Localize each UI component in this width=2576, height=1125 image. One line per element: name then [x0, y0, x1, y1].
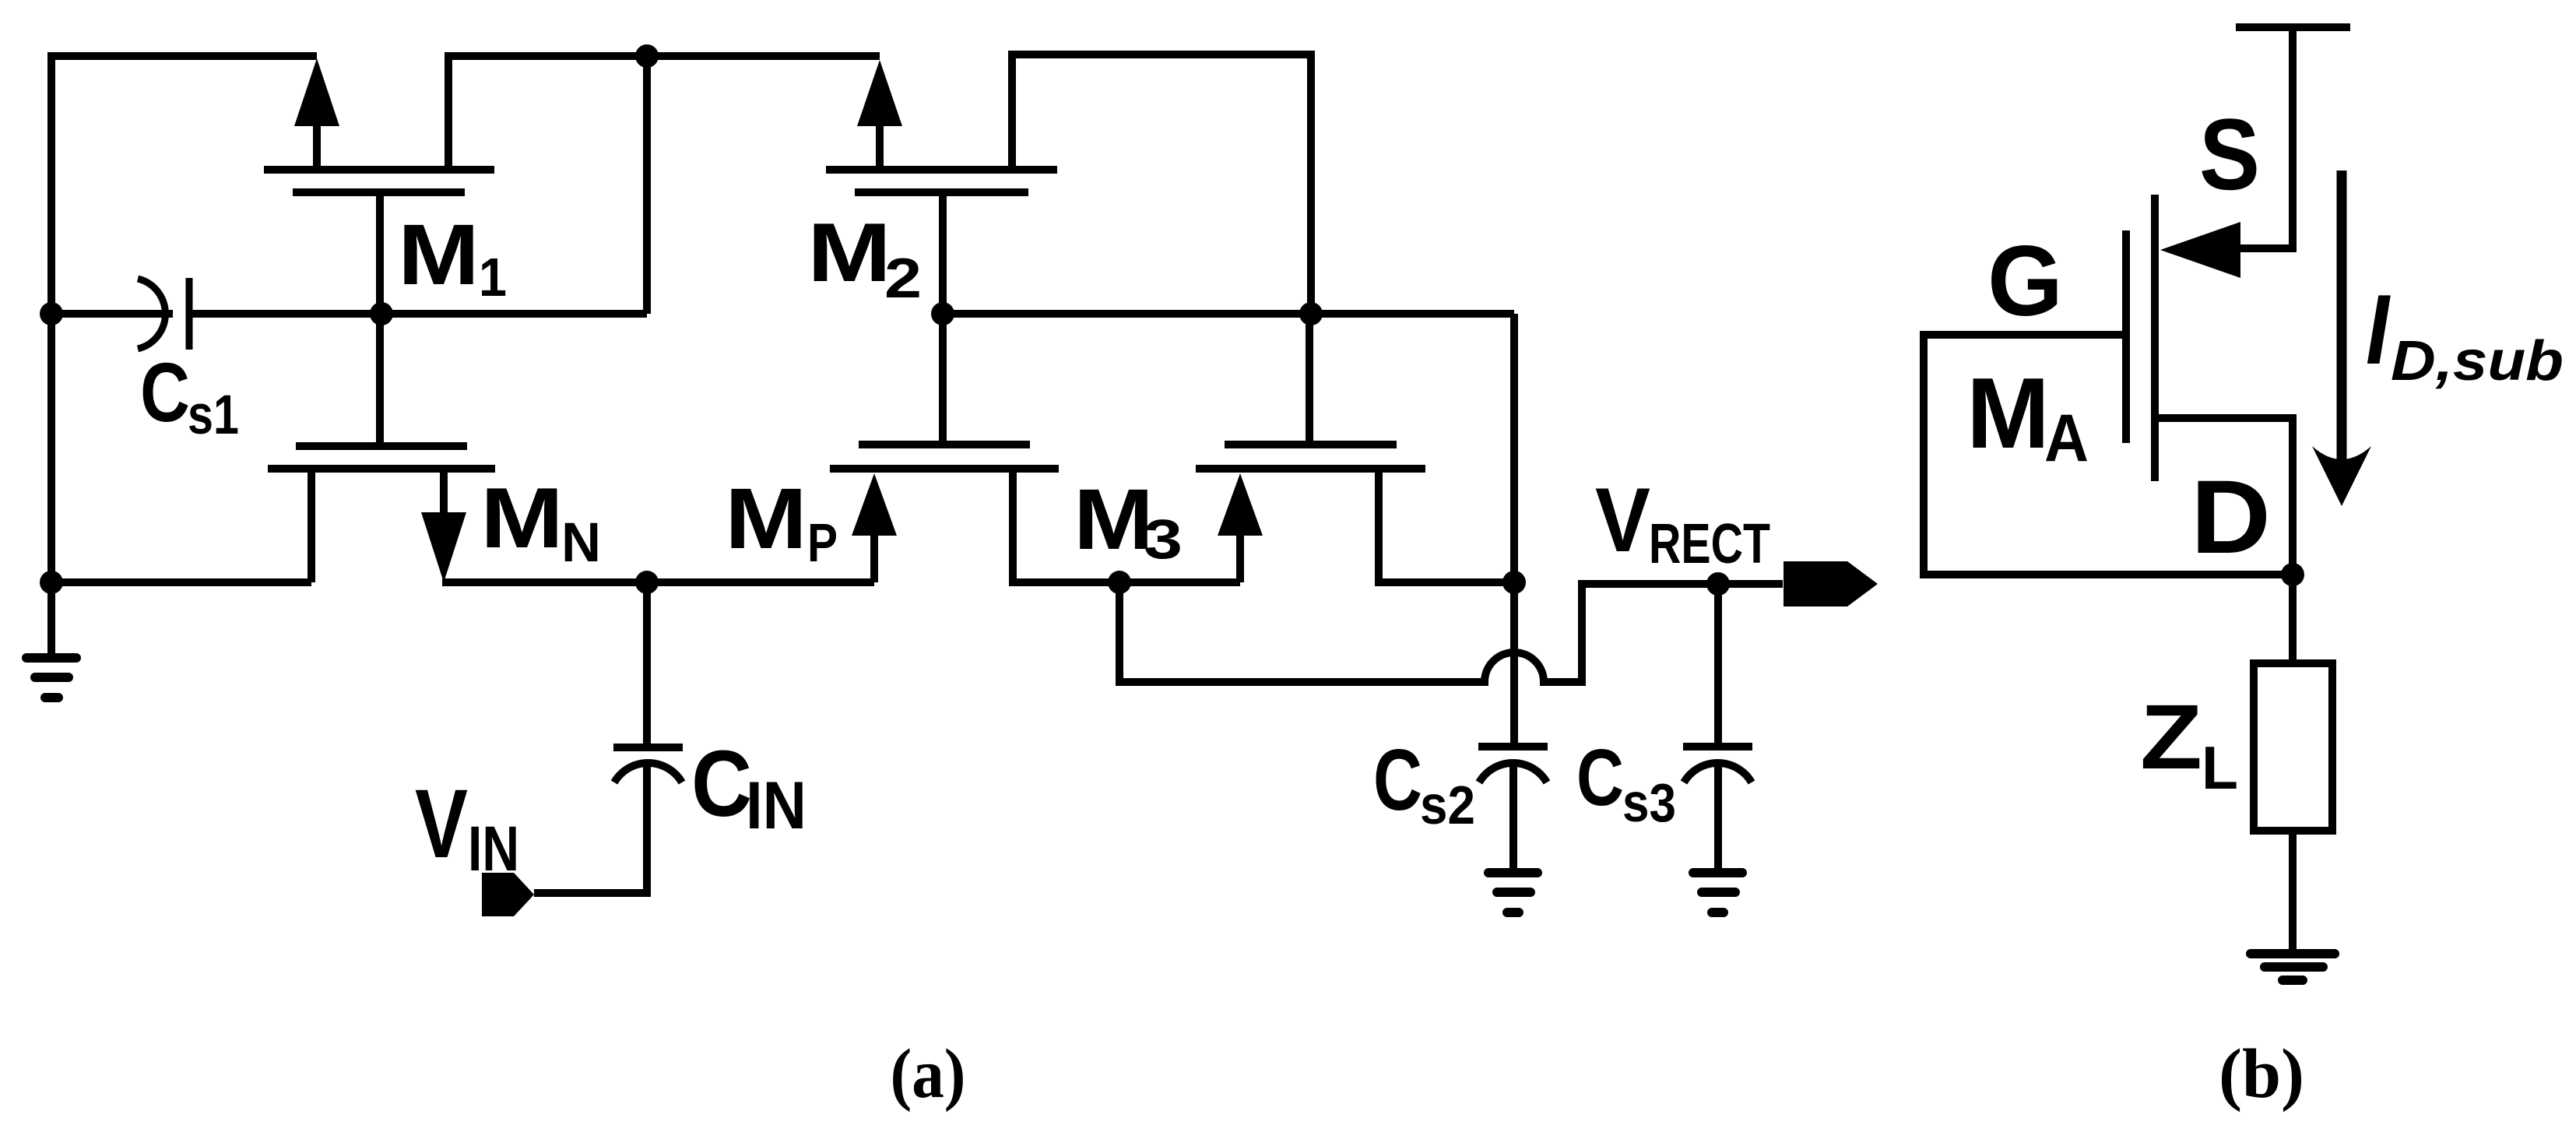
- ground: [26, 658, 76, 698]
- wire CIN stem: [643, 582, 651, 747]
- svg-text:2: 2: [884, 248, 922, 310]
- wire Cs2 vertical: [1510, 314, 1518, 747]
- svg-text:A: A: [2044, 401, 2089, 476]
- svg-text:V: V: [1595, 469, 1650, 571]
- svg-text:L: L: [2202, 733, 2238, 802]
- capacitor Cs1: [138, 278, 189, 350]
- wire ZL to ground: [2289, 831, 2297, 951]
- svg-text:C: C: [1576, 733, 1624, 822]
- wire hop to VRECT: [1119, 582, 1783, 682]
- transistor M1: [264, 56, 647, 192]
- svg-text:M: M: [1074, 472, 1154, 568]
- svg-text:N: N: [561, 512, 601, 574]
- svg-text:V: V: [415, 770, 468, 878]
- svg-text:M: M: [1966, 357, 2050, 469]
- svg-text:D,sub: D,sub: [2391, 330, 2564, 392]
- node A dot left: [40, 302, 63, 325]
- node dot rail left: [40, 571, 63, 594]
- svg-text:IN: IN: [746, 768, 807, 843]
- svg-text:M: M: [480, 470, 564, 566]
- svg-text:1: 1: [479, 247, 507, 308]
- svg-text:M: M: [807, 206, 891, 299]
- svg-text:C: C: [1373, 732, 1422, 828]
- wire gate stem M2/MP: [939, 192, 947, 445]
- svg-text:(a): (a): [891, 1035, 966, 1113]
- svg-text:M: M: [725, 471, 807, 567]
- node dot output rail: [1108, 571, 1131, 594]
- svg-text:(b): (b): [2219, 1035, 2304, 1113]
- wire Cs3 stem: [1714, 584, 1722, 747]
- wire M1-M2 top link: [647, 52, 880, 60]
- svg-text:Z: Z: [2140, 686, 2202, 789]
- wire left vertical: [47, 52, 55, 658]
- wire gate stem M1/MN: [376, 192, 384, 446]
- node dot top: [635, 44, 659, 68]
- wire node row 1 right: [189, 310, 647, 318]
- ground: [1488, 873, 1538, 912]
- node dot M3 gate: [1299, 302, 1323, 325]
- node dot rail CIN: [635, 571, 659, 594]
- resistor ZL: [2254, 663, 2332, 831]
- wire rail left: [51, 578, 311, 586]
- wire vertical to node row: [643, 56, 651, 314]
- svg-text:IN: IN: [468, 814, 519, 884]
- wire top-left rail: [51, 52, 317, 60]
- terminal VIN: [482, 873, 534, 916]
- svg-text:I: I: [2366, 274, 2391, 385]
- ground: [1693, 873, 1742, 912]
- node dot M1 gate: [370, 302, 393, 325]
- current arrow ID,sub: [2312, 171, 2371, 506]
- node dot Cs2: [1502, 571, 1526, 594]
- node D dot: [2281, 563, 2304, 586]
- svg-text:M: M: [398, 207, 480, 303]
- svg-text:P: P: [807, 512, 838, 573]
- transistor MA: [1924, 195, 2293, 667]
- svg-text:s2: s2: [1420, 775, 1475, 835]
- capacitor CIN: [613, 747, 683, 782]
- capacitor Cs3: [1683, 747, 1752, 873]
- svg-text:RECT: RECT: [1649, 513, 1770, 575]
- svg-text:s3: s3: [1622, 772, 1676, 833]
- transistor MP: [830, 445, 1240, 582]
- wire gate stem M3: [1306, 314, 1313, 445]
- wire CIN to VIN: [534, 765, 647, 893]
- wire (b) top rail: [2236, 23, 2350, 31]
- node dot VRECT: [1706, 572, 1730, 596]
- wire node row 1 left: [51, 310, 173, 318]
- svg-text:D: D: [2191, 459, 2271, 575]
- transistor M2: [826, 54, 1311, 314]
- capacitor Cs2: [1478, 747, 1548, 873]
- svg-text:G: G: [1987, 226, 2063, 337]
- wire node row 2: [943, 310, 1514, 318]
- transistor MN: [268, 446, 495, 582]
- wire rail mid: [442, 578, 874, 586]
- transistor M3: [1196, 445, 1514, 582]
- svg-text:s1: s1: [188, 385, 239, 446]
- svg-text:S: S: [2199, 97, 2260, 211]
- ground: [2251, 954, 2335, 980]
- wire (b) source vertical: [2240, 23, 2293, 248]
- terminal VRECT: [1784, 561, 1878, 606]
- node dot M2 gate: [931, 302, 954, 325]
- svg-text:C: C: [140, 345, 190, 439]
- svg-text:C: C: [691, 730, 752, 836]
- svg-text:3: 3: [1144, 509, 1183, 571]
